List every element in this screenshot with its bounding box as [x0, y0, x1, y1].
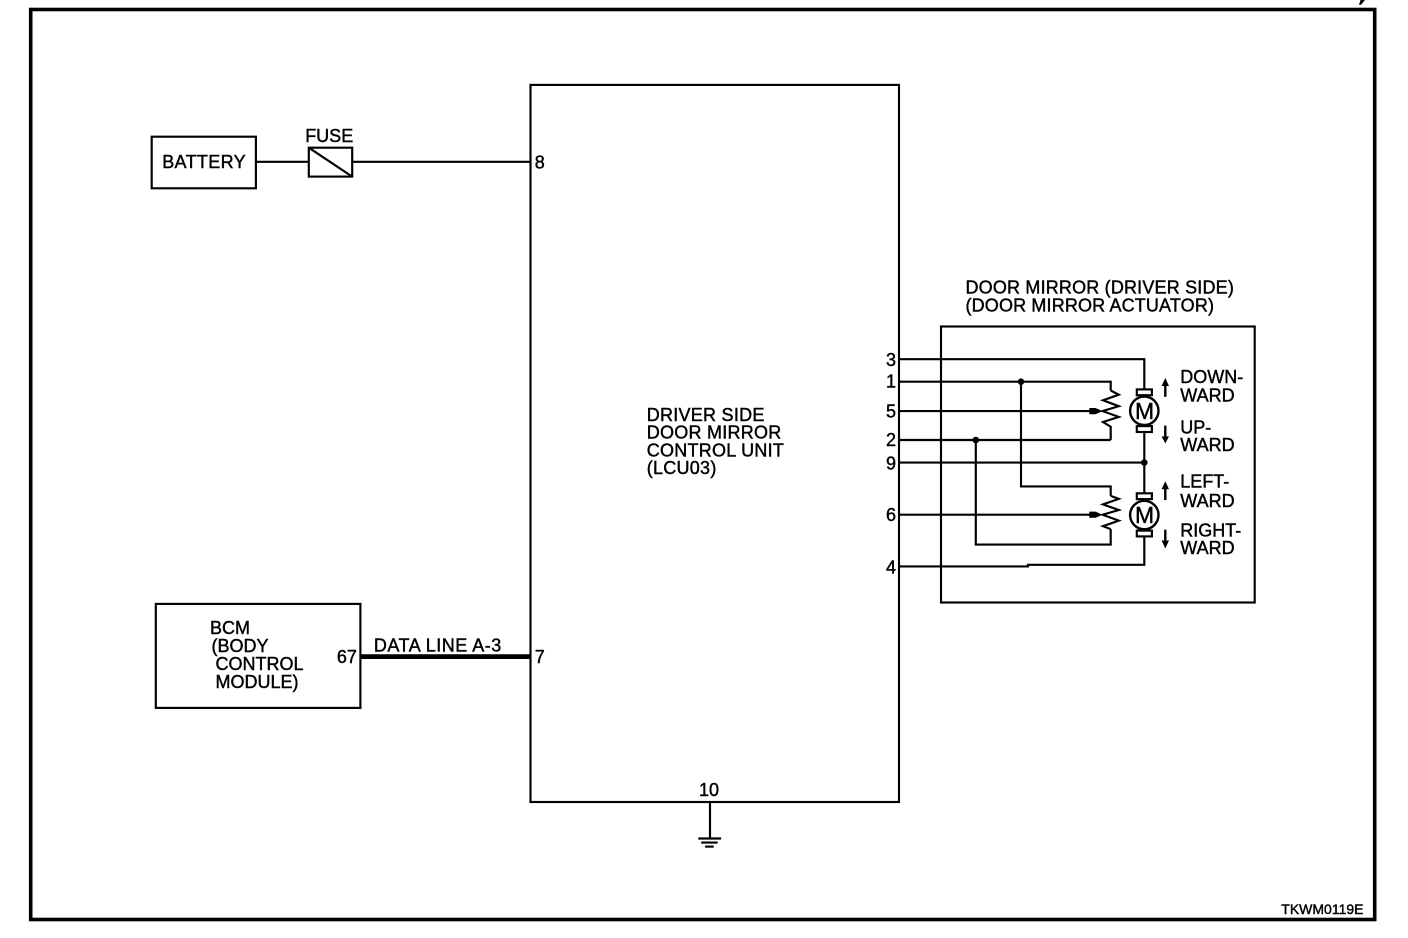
svg-text:BCM: BCM — [210, 618, 250, 638]
svg-text:6: 6 — [886, 505, 896, 525]
resistor lower (variable) — [1103, 496, 1119, 529]
wire pin 4 to lower motor bottom — [899, 537, 1145, 567]
svg-text:67: 67 — [337, 647, 357, 667]
svg-text:FUSE: FUSE — [305, 126, 353, 146]
arrow leftward (up) — [1162, 481, 1169, 500]
fuse F1 — [309, 148, 352, 177]
cut-off glyph top right — [1359, 0, 1365, 5]
svg-text:1: 1 — [886, 371, 896, 391]
wire pin 5 wiper — [899, 410, 1090, 412]
node dot wire2 — [973, 437, 980, 444]
svg-text:CONTROL: CONTROL — [216, 654, 304, 674]
BCM module — [156, 604, 361, 708]
svg-text:WARD: WARD — [1180, 435, 1234, 455]
wire pin 3 to upper motor top — [899, 359, 1145, 389]
branch wire1 to lower resistor top — [1021, 382, 1111, 496]
resistor upper (variable) — [1103, 391, 1119, 441]
ground wire stem — [709, 802, 711, 839]
wire junction to lower motor — [1143, 463, 1145, 494]
label RIGHT-WARD — [1180, 521, 1241, 559]
ground — [698, 839, 721, 847]
svg-text:DOOR MIRROR (DRIVER SIDE): DOOR MIRROR (DRIVER SIDE) — [966, 278, 1235, 298]
door mirror label — [966, 278, 1235, 316]
control unit label — [647, 405, 784, 478]
label UP-WARD — [1180, 417, 1234, 455]
svg-text:M: M — [1135, 398, 1154, 424]
svg-text:7: 7 — [535, 647, 545, 667]
svg-text:TKWM0119E: TKWM0119E — [1281, 901, 1363, 917]
wire pin 9 to motor junction — [899, 462, 1145, 464]
battery B1 — [152, 137, 256, 189]
junction dot motors — [1141, 459, 1148, 466]
branch wire2 to lower resistor bottom — [976, 440, 1111, 545]
arrow rightward (down) — [1162, 530, 1169, 549]
door mirror actuator box — [941, 327, 1255, 603]
svg-text:9: 9 — [886, 453, 896, 473]
wire upper motor to junction — [1143, 433, 1145, 463]
wire pin 1 to upper resistor top — [899, 382, 1111, 391]
arrow downward (up) — [1162, 378, 1169, 397]
wire fuse to control unit pin 8 — [352, 161, 530, 163]
svg-text:DATA LINE A-3: DATA LINE A-3 — [374, 636, 502, 656]
wire pin 2 to upper resistor bottom — [899, 439, 1111, 441]
data line wire (thick) — [360, 654, 530, 659]
arrow upward (down) — [1162, 426, 1169, 444]
svg-text:WARD: WARD — [1180, 385, 1234, 405]
svg-text:(BODY: (BODY — [212, 636, 269, 656]
motor M1 upper — [1130, 389, 1158, 432]
label DOWN-WARD — [1180, 367, 1243, 405]
svg-text:WARD: WARD — [1180, 538, 1234, 558]
svg-text:BATTERY: BATTERY — [162, 152, 246, 172]
BCM label — [210, 618, 304, 692]
wire battery to fuse — [256, 161, 309, 163]
svg-text:2: 2 — [886, 430, 896, 450]
svg-text:LEFT-: LEFT- — [1180, 472, 1229, 492]
svg-text:8: 8 — [535, 152, 545, 172]
wire pin 6 wiper — [899, 514, 1090, 516]
svg-text:DOWN-: DOWN- — [1180, 367, 1243, 387]
svg-text:10: 10 — [699, 780, 719, 800]
wiper arrow lower — [1089, 512, 1102, 518]
label LEFT-WARD — [1180, 472, 1234, 511]
svg-text:M: M — [1135, 502, 1154, 528]
svg-text:WARD: WARD — [1180, 491, 1234, 511]
svg-text:MODULE): MODULE) — [216, 672, 299, 692]
control unit U1 — [531, 85, 900, 802]
wiper arrow upper — [1089, 408, 1102, 414]
svg-text:5: 5 — [886, 401, 896, 421]
svg-text:(LCU03): (LCU03) — [647, 458, 717, 478]
svg-text:(DOOR MIRROR ACTUATOR): (DOOR MIRROR ACTUATOR) — [966, 296, 1215, 316]
motor M2 lower — [1130, 493, 1158, 536]
svg-text:3: 3 — [886, 350, 896, 370]
svg-text:4: 4 — [886, 558, 896, 578]
node dot wire1 — [1018, 378, 1025, 385]
